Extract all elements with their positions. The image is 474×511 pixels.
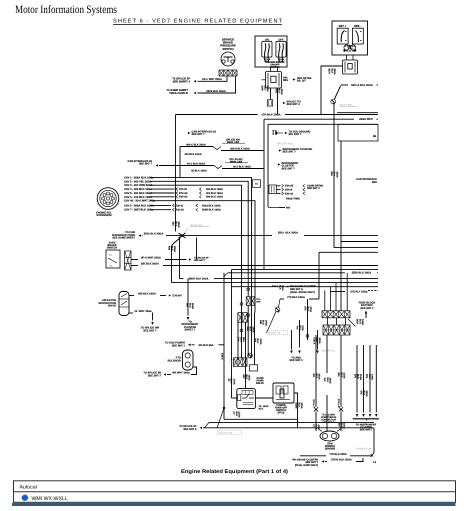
svg-text:20GA: 20GA xyxy=(318,338,321,344)
wire 400-A BLK 16GA xyxy=(221,150,264,152)
svg-text:21GA: 21GA xyxy=(343,423,346,429)
svg-text:14GA: 14GA xyxy=(251,327,254,333)
wire vertical x251 xyxy=(251,297,253,358)
wire 5B7-A BLK 20GA xyxy=(341,84,349,86)
bullet connector 4 xyxy=(247,314,250,317)
svg-text:SEE SHT 7: SEE SHT 7 xyxy=(283,151,297,154)
label to VEDA conn B xyxy=(167,89,189,95)
svg-text:BLK: BLK xyxy=(245,375,248,380)
svg-text:RES -: RES - xyxy=(354,25,361,28)
svg-text:WHT: WHT xyxy=(274,130,277,136)
wire 575 BLY 20GA right xyxy=(330,291,345,293)
svg-text:40 BLK 16GA: 40 BLK 16GA xyxy=(191,170,207,173)
connector strip CS2 xyxy=(323,325,350,335)
svg-text:SEE: SEE xyxy=(372,181,377,184)
wire 5B7 BLK 20GA vertical xyxy=(321,66,343,115)
wire 508 BLK 20GA xyxy=(172,238,181,283)
wire 575 BLK 21GA label xyxy=(354,374,363,380)
svg-text:PASS-THRU: PASS-THRU xyxy=(286,198,300,201)
svg-text:SEE SHT 7: SEE SHT 7 xyxy=(143,329,157,332)
wire vertical x341 xyxy=(340,335,342,407)
wire CAV E30-3A row xyxy=(150,209,171,211)
wire right stack 272 555A xyxy=(228,272,345,274)
wire CT BLK 21GA label xyxy=(232,412,241,418)
svg-text:16GA: 16GA xyxy=(329,378,332,384)
svg-text:BLK: BLK xyxy=(230,379,233,384)
label air filter restriction valve xyxy=(99,299,117,308)
wire vertical right 374 xyxy=(373,428,375,453)
switch S4 jake brake xyxy=(106,250,120,268)
svg-text:500A BLK 16GA: 500A BLK 16GA xyxy=(202,204,221,207)
wire 47R BLK 20GA xyxy=(275,89,284,95)
svg-text:(DUAL STAGE ONLY): (DUAL STAGE ONLY) xyxy=(290,291,315,294)
svg-text:44E: 44E xyxy=(259,320,262,325)
svg-text:575: 575 xyxy=(304,307,307,312)
svg-text:SEE SHT 3: SEE SHT 3 xyxy=(307,187,320,190)
wire 581 BLK 20GA xyxy=(131,265,138,267)
wire right stack 278 xyxy=(180,278,184,280)
wire CAV40 row xyxy=(150,201,255,313)
cruise set-res switch S3 xyxy=(332,21,368,55)
svg-text:(PTO): (PTO) xyxy=(278,412,285,415)
svg-text:SEE SHT 7: SEE SHT 7 xyxy=(139,163,153,166)
svg-text:BLK: BLK xyxy=(170,246,173,251)
connector engine ECU expansion P1 xyxy=(97,188,119,210)
label to ECU ground xyxy=(275,132,283,134)
svg-text:BR WHT 16Ga: BR WHT 16Ga xyxy=(172,372,190,375)
svg-text:21GA: 21GA xyxy=(343,373,346,379)
svg-text:CAV 4 - 400 BLK 16Ga: CAV 4 - 400 BLK 16Ga xyxy=(124,188,152,191)
svg-text:SPL/CE 5B7: SPL/CE 5B7 xyxy=(340,104,353,107)
svg-text:5B: 5B xyxy=(373,135,376,138)
svg-text:BLK: BLK xyxy=(356,374,359,379)
wires strip CS1 to CS2 xyxy=(327,318,329,325)
svg-text:400 BLK 16GA: 400 BLK 16GA xyxy=(184,153,201,156)
wire right stack 241 xyxy=(341,241,378,243)
svg-text:35A: 35A xyxy=(172,222,175,227)
svg-text:BLK: BLK xyxy=(279,285,282,290)
wire CAV4 E70 row xyxy=(150,188,175,190)
svg-text:E30-A2: E30-A2 xyxy=(179,196,188,199)
svg-text:9F-C WHT 20GA: 9F-C WHT 20GA xyxy=(141,257,161,260)
wire right stack 290 dash xyxy=(368,289,378,291)
wire CAV E30-3 row xyxy=(150,204,171,206)
wire vertical x254 xyxy=(254,313,256,366)
svg-text:16GA: 16GA xyxy=(281,285,284,291)
switch PTO S5 xyxy=(273,383,294,403)
svg-text:OF-F WHT 20GA: OF-F WHT 20GA xyxy=(202,78,222,81)
wire vertical E30-K xyxy=(223,273,225,398)
svg-text:575-B BLK 20GA: 575-B BLK 20GA xyxy=(331,459,352,462)
svg-text:VER: VER xyxy=(256,300,261,303)
wmi sphere icon xyxy=(22,495,28,501)
svg-text:WA: WA xyxy=(253,339,256,343)
wire vertical x357 xyxy=(356,345,358,413)
connector K2 top right xyxy=(249,365,257,371)
svg-text:SEE SHT 7: SEE SHT 7 xyxy=(148,374,162,377)
svg-text:E30-3E: E30-3E xyxy=(285,185,294,188)
svg-text:20GA: 20GA xyxy=(173,246,176,252)
svg-text:SEE SHT 7: SEE SHT 7 xyxy=(192,133,206,136)
label instrument cluster 2 xyxy=(278,163,281,165)
wire OF-F WHT 20GA xyxy=(198,76,228,81)
svg-text:40-J BLK 16GA: 40-J BLK 16GA xyxy=(233,166,251,169)
svg-text:CAV 1 - 366A BLK 16Ga: CAV 1 - 366A BLK 16Ga xyxy=(124,176,154,179)
svg-text:4GA: 4GA xyxy=(242,337,245,342)
svg-text:SPL/CE 35A: SPL/CE 35A xyxy=(190,224,203,227)
wire vertical 231 xyxy=(231,270,233,398)
bullet connector 1 xyxy=(240,303,243,306)
wire 1F BLK 17GA label xyxy=(227,379,236,385)
svg-text:400-A BLK 16GA: 400-A BLK 16GA xyxy=(230,148,250,151)
svg-text:5B7+: 5B7+ xyxy=(328,69,331,75)
wire SET box to J2 xyxy=(346,55,348,60)
arrow to ABS 2 xyxy=(298,351,301,354)
connector E30 pass-thru xyxy=(269,185,277,194)
svg-text:SPL/CE C/7A: SPL/CE C/7A xyxy=(219,432,233,435)
svg-text:20GA: 20GA xyxy=(335,172,338,178)
svg-text:1A: 1A xyxy=(255,183,258,186)
wire C30 BLK 4GA label xyxy=(237,337,246,342)
wire CAV2 row xyxy=(150,181,248,287)
svg-text:5678 BLK 20GA: 5678 BLK 20GA xyxy=(206,90,225,93)
wire from box B1 xyxy=(340,141,342,311)
wire CAV1 row xyxy=(150,177,252,296)
svg-text:575: 575 xyxy=(360,391,363,396)
svg-text:E30-3A: E30-3A xyxy=(176,209,185,212)
svg-text:GRN: GRN xyxy=(261,86,264,92)
svg-text:21GA: 21GA xyxy=(359,374,362,380)
wire GRN BLK 20GA xyxy=(261,86,270,92)
svg-text:RES: RES xyxy=(283,79,288,82)
svg-text:SWITCH: SWITCH xyxy=(270,66,280,69)
connector chevron E70-L-7 xyxy=(314,407,318,412)
splice label 7A xyxy=(218,430,242,434)
bullet connector 3 xyxy=(247,288,250,291)
wire 40-J BLK 16GA xyxy=(222,168,264,170)
svg-text:575: 575 xyxy=(354,374,357,379)
svg-text:SEE SHT 1: SEE SHT 1 xyxy=(360,307,374,310)
svg-text:SEE SHT 7: SEE SHT 7 xyxy=(194,259,206,262)
svg-text:BLK: BLK xyxy=(306,307,309,312)
splice node 5 transistor xyxy=(248,353,253,359)
wire relay left xyxy=(232,397,237,399)
svg-text:SEE SHT 3: SEE SHT 3 xyxy=(289,359,303,362)
svg-text:16GA: 16GA xyxy=(248,375,251,381)
svg-text:7A: 7A xyxy=(259,405,262,408)
svg-text:D30-A: D30-A xyxy=(313,338,316,345)
label RH gauge cluster bottom xyxy=(292,459,318,465)
svg-text:E70-L-7: E70-L-7 xyxy=(312,400,315,409)
svg-text:21GA: 21GA xyxy=(259,339,262,345)
svg-text:WH SHT 30: WH SHT 30 xyxy=(322,350,335,353)
wire y419 xyxy=(224,418,298,420)
svg-text:CAV 2 - 400 VEL 20GA: CAV 2 - 400 VEL 20GA xyxy=(124,180,152,183)
svg-text:BLR: BLR xyxy=(358,319,361,324)
svg-text:20GA: 20GA xyxy=(300,403,303,409)
wire vertical x327 xyxy=(326,335,328,373)
svg-text:555A BLK 16GA: 555A BLK 16GA xyxy=(352,272,372,275)
svg-text:BLK: BLK xyxy=(263,86,266,91)
svg-text:SENDER: SENDER xyxy=(325,448,336,451)
arrow to ABS 1 xyxy=(290,351,293,354)
svg-text:E30-K: E30-K xyxy=(221,353,224,360)
wire 7-4 BLK xyxy=(299,320,301,348)
svg-text:SEE SHT 7: SEE SHT 7 xyxy=(360,429,373,432)
svg-text:BLK: BLK xyxy=(330,69,333,74)
svg-text:BLK: BLK xyxy=(262,320,265,325)
svg-text:E70-L-K: E70-L-K xyxy=(337,399,340,408)
wire 552A BLK 20GA xyxy=(141,235,144,237)
connector K1 top xyxy=(234,358,248,367)
svg-text:BNEY BLK 20GA: BNEY BLK 20GA xyxy=(189,278,209,281)
wire D30-A label xyxy=(313,338,322,345)
wire vertical x363 xyxy=(363,345,365,413)
svg-text:20GA: 20GA xyxy=(333,69,336,75)
svg-text:BLK: BLK xyxy=(188,303,191,308)
cruise switch connector J2 xyxy=(343,60,358,74)
svg-text:SET +: SET + xyxy=(339,25,347,28)
svg-text:SEE SHT 7: SEE SHT 7 xyxy=(323,421,336,424)
svg-text:E30-3): E30-3) xyxy=(176,204,184,207)
svg-text:10 11 12: 10 11 12 xyxy=(346,49,355,52)
svg-text:CAV 7 - 3807 BLK 16Ga: CAV 7 - 3807 BLK 16Ga xyxy=(124,209,154,212)
wire right stack 286 xyxy=(232,286,379,288)
junction dot CT xyxy=(223,407,225,409)
label to splice 3P xyxy=(172,78,190,84)
wire E30-3I xyxy=(277,189,281,191)
svg-text:556: 556 xyxy=(337,373,340,378)
label to cab interface conn xyxy=(112,231,135,240)
connector chevron E70-L-K xyxy=(339,407,343,412)
svg-text:BLK: BLK xyxy=(239,337,242,342)
connector J4 jake brake xyxy=(125,251,132,270)
svg-text:SEE SHT 4: SEE SHT 4 xyxy=(287,103,301,106)
wire 2+F BLK 16GA label xyxy=(323,378,332,384)
wire 40-C BLK 20GA xyxy=(159,165,214,167)
wire 550 BLK 21GA label xyxy=(337,423,345,429)
svg-text:ON: ON xyxy=(265,38,269,41)
svg-text:550-L BLK 20GA: 550-L BLK 20GA xyxy=(278,232,298,235)
wire CAV3 row xyxy=(150,185,242,302)
wire 779 BLK 16GA xyxy=(280,298,284,300)
engine brake connector J3 xyxy=(262,72,282,89)
wire 20GA WHT xyxy=(264,118,354,120)
label to instrument cluster bottom xyxy=(356,424,377,432)
pressure switch S1 label xyxy=(220,38,236,51)
svg-text:5B7+A BLK 20GA: 5B7+A BLK 20GA xyxy=(351,84,373,87)
wire to SPL/CE 3P bottom xyxy=(179,425,197,431)
label can interface 2 xyxy=(128,160,153,166)
svg-text:209 BLK 16GA: 209 BLK 16GA xyxy=(138,293,156,296)
svg-text:SEL SHT 7: SEL SHT 7 xyxy=(289,133,303,136)
svg-text:E70-2G: E70-2G xyxy=(179,192,188,195)
svg-text:E30-33: E30-33 xyxy=(285,192,294,195)
engine brake on-off switch S2 xyxy=(255,36,287,67)
wire 552 BLK 16GA label xyxy=(242,375,251,381)
svg-text:2+F: 2+F xyxy=(323,378,326,383)
svg-text:EXPANSION: EXPANSION xyxy=(97,214,112,217)
sheet header xyxy=(113,19,283,25)
wire 400 stub xyxy=(279,207,285,209)
solenoid PTO L1 xyxy=(183,350,194,370)
svg-text:16GA: 16GA xyxy=(264,320,267,326)
wire E30-33 xyxy=(277,192,281,194)
arrows to instrument cluster xyxy=(356,414,359,417)
wire vertical x245 xyxy=(245,322,247,389)
svg-text:20GA: 20GA xyxy=(318,374,321,380)
label jake brake switch xyxy=(107,242,117,250)
svg-text:40-C BLK 20GA: 40-C BLK 20GA xyxy=(187,163,205,166)
splice junction 35A xyxy=(179,233,186,238)
svg-text:270A: 270A xyxy=(309,307,312,313)
svg-text:BLK: BLK xyxy=(368,374,371,379)
wire 17H BLK 20GA xyxy=(176,114,258,116)
arrow D30 down xyxy=(316,351,319,354)
svg-text:500B BLK 16GA: 500B BLK 16GA xyxy=(202,209,221,212)
wire vertical x307 575 xyxy=(307,299,309,340)
wire OL WHT 16GA xyxy=(129,312,133,314)
svg-text:400: 400 xyxy=(286,207,291,210)
wire upper right short xyxy=(337,112,378,114)
junction box B1 xyxy=(338,124,378,141)
label EAE interface xyxy=(356,178,377,184)
svg-text:CAV 3 - 410 BLK 12GA: CAV 3 - 410 BLK 12GA xyxy=(124,196,152,199)
wire right stack 269 xyxy=(232,269,379,271)
svg-text:BLK: BLK xyxy=(333,172,336,177)
svg-text:VALVE: VALVE xyxy=(108,305,116,308)
svg-text:20GA: 20GA xyxy=(365,391,368,397)
svg-text:21GA: 21GA xyxy=(238,412,241,418)
svg-text:5M4: 5M4 xyxy=(246,327,249,332)
svg-text:779 BLK 16GA: 779 BLK 16GA xyxy=(287,296,305,299)
bullet connector 2 xyxy=(240,329,243,332)
svg-text:OFF: OFF xyxy=(278,38,284,41)
wire 5B7 BLK 20GA long vertical xyxy=(333,104,335,248)
wire box top inner xyxy=(268,123,378,125)
svg-text:SHEET 6 - VED7 ENGINE RELATED: SHEET 6 - VED7 ENGINE RELATED EQUIPMENT xyxy=(113,19,283,25)
label conn detail xyxy=(307,185,324,191)
splice box VEC xyxy=(246,297,255,306)
wire 575 BLK 20GA label 2 xyxy=(360,391,369,397)
svg-text:50-B: 50-B xyxy=(272,130,275,135)
sender ETM M1 xyxy=(318,429,341,442)
wire 7A BLK label xyxy=(253,339,262,345)
svg-text:MAIN CAB: MAIN CAB xyxy=(227,141,240,144)
wire E2B4 BLK 20GA xyxy=(295,403,304,410)
wire 44E BLK 16GA label xyxy=(259,320,268,326)
wire 209 BLK 16GA xyxy=(129,295,134,297)
wire vertical x316 xyxy=(315,335,317,407)
wire right stack 247 xyxy=(334,247,378,249)
wire diag wgt xyxy=(348,319,356,327)
svg-text:MAIN CAB: MAIN CAB xyxy=(230,161,243,164)
wire vertical x376 xyxy=(375,345,377,413)
svg-text:SHEET 7: SHEET 7 xyxy=(185,329,196,332)
label fuse block battery xyxy=(359,302,376,310)
svg-text:SPL SHT #4 A: SPL SHT #4 A xyxy=(277,143,293,146)
svg-text:E30-3I: E30-3I xyxy=(285,189,293,192)
connector TA1 xyxy=(253,180,261,188)
wire vertical trunk x175 xyxy=(175,115,177,232)
wire switch box to J3 xyxy=(270,67,272,72)
wire junction down 179 xyxy=(179,238,181,279)
svg-text:575 BLY 20Ga: 575 BLY 20Ga xyxy=(351,290,368,293)
svg-text:BLK: BLK xyxy=(315,374,318,379)
svg-text:17GA: 17GA xyxy=(232,379,235,385)
wire vertical x238 xyxy=(237,322,239,360)
svg-text:BLK: BLK xyxy=(256,339,259,344)
autocar panel xyxy=(14,481,456,503)
svg-text:BLK: BLK xyxy=(235,412,238,417)
svg-text:B/L D/7: B/L D/7 xyxy=(297,80,306,83)
svg-text:CAV 6 - 360A BLK 16GA: CAV 6 - 360A BLK 16GA xyxy=(124,204,154,207)
wire 575-B BLK 20GA xyxy=(322,460,325,462)
wire 779 BLK 200A xyxy=(300,455,326,457)
relay K3 xyxy=(237,389,256,409)
svg-text:BLK: BLK xyxy=(326,378,329,383)
arrow fuse block up xyxy=(365,311,368,314)
svg-text:CAV 40 - 30-A WHT 17Ga: CAV 40 - 30-A WHT 17Ga xyxy=(124,200,155,203)
svg-text:16GA: 16GA xyxy=(361,319,364,325)
svg-text:508: 508 xyxy=(168,246,171,251)
svg-text:(DUAL GATE ONLY): (DUAL GATE ONLY) xyxy=(295,464,318,467)
svg-text:Motor Information Systems: Motor Information Systems xyxy=(15,4,117,16)
label to ECU power xyxy=(165,342,186,348)
svg-text:20GA: 20GA xyxy=(191,303,194,309)
wires into strip CS1 xyxy=(324,290,326,310)
svg-text:HGA: HGA xyxy=(301,326,304,332)
svg-text:7+4: 7+4 xyxy=(296,326,299,331)
svg-text:552: 552 xyxy=(242,375,245,380)
wire 57+ BLK 4GA label xyxy=(312,425,320,430)
wire WR BLK 20GA down xyxy=(186,303,195,309)
svg-text:575: 575 xyxy=(365,374,368,379)
bottom blue bar xyxy=(12,503,456,506)
svg-text:WMI WX-WXLL: WMI WX-WXLL xyxy=(32,496,68,502)
wire CAV5 E70 row xyxy=(150,192,175,194)
svg-text:BLK: BLK xyxy=(249,327,252,332)
svg-text:14GA: 14GA xyxy=(263,405,269,408)
svg-text:BLK: BLK xyxy=(259,408,264,411)
svg-text:SEE SHEET 4: SEE SHEET 4 xyxy=(173,81,191,84)
svg-text:E30: E30 xyxy=(237,337,240,342)
svg-text:401 BLK 16GA: 401 BLK 16GA xyxy=(206,192,223,195)
wire BR WHT 16GA xyxy=(143,372,161,378)
svg-text:571: 571 xyxy=(312,374,315,379)
wire right stack 251 xyxy=(319,251,378,253)
wire right stack 282 xyxy=(172,282,379,284)
pressure switch S1 xyxy=(221,52,235,66)
svg-text:E70-2F: E70-2F xyxy=(179,188,188,191)
svg-text:EH BLK 65A: EH BLK 65A xyxy=(198,344,213,347)
wire bottom 422 xyxy=(209,421,374,423)
wire 5678 BLK 20GA xyxy=(198,76,236,93)
svg-text:BLK: BLK xyxy=(340,373,343,378)
svg-text:20GA: 20GA xyxy=(280,89,283,95)
svg-text:14GA: 14GA xyxy=(371,374,374,380)
svg-text:M5+: M5+ xyxy=(330,172,333,177)
splice node 779 xyxy=(275,307,280,313)
valve V1 xyxy=(119,292,129,316)
svg-text:SEE SHT 5: SEE SHT 5 xyxy=(183,428,197,431)
bracket instrument cluster xyxy=(353,418,379,420)
svg-text:380 BLK 12GA: 380 BLK 12GA xyxy=(206,196,223,199)
svg-text:SOLENOID: SOLENOID xyxy=(168,359,182,362)
splice node 5B7 xyxy=(335,86,341,99)
label instrument cluster 1 xyxy=(279,149,282,151)
label cond pump relay xyxy=(256,377,264,385)
